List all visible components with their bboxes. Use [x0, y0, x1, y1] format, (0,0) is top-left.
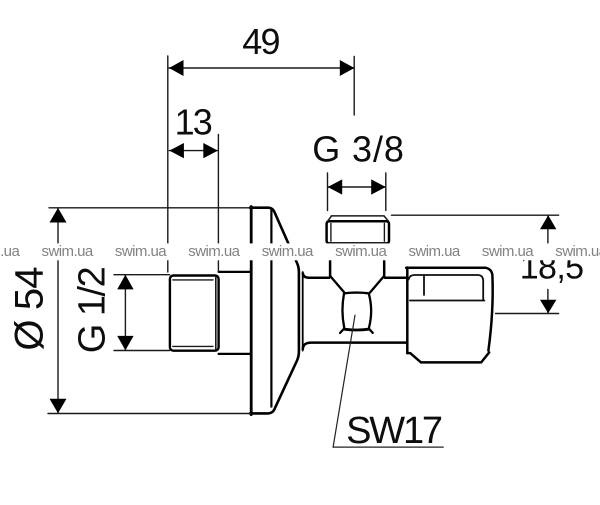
svg-text:G 3/8: G 3/8: [312, 128, 405, 169]
dimension 18,5 bottom extension line: [496, 313, 559, 315]
arrow G3/8 right: [371, 179, 386, 194]
shank bottom edge: [219, 353, 251, 355]
dimension G1/2 top extension line: [114, 274, 170, 276]
body top edge right segment: [385, 276, 407, 279]
svg-text:swim.ua: swim.ua: [42, 243, 94, 260]
svg-text:Ø 54: Ø 54: [8, 267, 52, 351]
flange face left edge: [250, 207, 253, 415]
stem barrel bottom: [344, 328, 368, 332]
SW17 underline: [333, 446, 443, 448]
dimension dia54 line: [57, 208, 59, 413]
nipple top face right connector: [384, 216, 388, 221]
nut right edge: [485, 268, 493, 351]
svg-text:swim.ua: swim.ua: [409, 243, 461, 260]
nut inner left facet vertical: [423, 276, 425, 295]
stem barrel left edge: [342, 294, 344, 328]
svg-text:49: 49: [242, 21, 279, 62]
barrel bottom left tick: [340, 329, 344, 333]
comma trim patch: [552, 284, 568, 294]
dimension 18,5 line lower segment: [547, 290, 549, 314]
dimension G1/2 bottom extension line: [114, 350, 170, 352]
svg-text:swim.ua: swim.ua: [335, 243, 387, 260]
thread inner bottom line: [173, 345, 213, 347]
barrel bottom right tick: [369, 329, 373, 333]
nut top edge: [406, 266, 485, 269]
arrow G3/8 left: [328, 179, 343, 194]
svg-text:13: 13: [175, 101, 212, 142]
flange outline cone: [250, 208, 299, 414]
dimension G1/2 line: [124, 275, 126, 350]
nipple top face line: [331, 215, 384, 217]
flange inner face line: [270, 209, 272, 407]
svg-text:SW17: SW17: [346, 410, 442, 452]
arrow dia54 top: [50, 208, 67, 223]
svg-text:swim.ua: swim.ua: [262, 243, 314, 260]
port left splay: [330, 276, 344, 292]
nipple top face left connector: [328, 216, 332, 221]
dimension 13 right extension line: [217, 135, 219, 273]
svg-text:swim.ua: swim.ua: [188, 243, 240, 260]
arrow 49 left: [169, 60, 184, 76]
dimension 13 line: [169, 150, 217, 152]
nut inner top facet: [409, 275, 484, 301]
svg-text:swim.ua: swim.ua: [0, 243, 20, 260]
watermark white band: [0, 243, 600, 260]
svg-text:swim.ua: swim.ua: [482, 243, 534, 260]
dimension 49 left extension line: [167, 56, 169, 272]
nipple inner right vertical: [383, 224, 385, 242]
arrow 18,5 top: [540, 215, 556, 229]
SW17 leader line: [333, 315, 355, 447]
arrow 13 left: [169, 143, 184, 158]
arrow G1/2 bottom: [117, 336, 133, 350]
dimension 49 line: [169, 67, 354, 69]
stem barrel SW17 top: [344, 291, 368, 294]
arrow G1/2 top: [117, 275, 133, 290]
arrow 13 right: [203, 143, 218, 158]
dimension dia54 bottom extension line: [48, 413, 251, 415]
nut left edge: [406, 268, 409, 354]
nut inner facet horizontal: [410, 300, 485, 302]
port right splay: [370, 276, 384, 292]
thread inner relief vertical: [215, 278, 217, 349]
flange neck inner line: [302, 272, 304, 351]
dimension G3/8 left extension line: [327, 173, 329, 211]
svg-text:swim.ua: swim.ua: [115, 243, 167, 260]
dimension 49 right extension line: [353, 57, 355, 116]
arrow 18,5 bottom: [540, 300, 556, 314]
nut bottom edge with chamfers: [407, 352, 489, 362]
nipple inner left vertical: [330, 224, 332, 242]
top port left stub: [329, 259, 332, 276]
top port right stub: [383, 259, 386, 276]
watermark row swim.ua: [0, 243, 600, 260]
shank top edge: [219, 271, 251, 273]
stem barrel right edge: [369, 294, 371, 328]
body bottom edge: [303, 343, 407, 349]
thread G1/2 male pipe outline: [170, 276, 219, 351]
svg-text:G 1/2: G 1/2: [71, 267, 113, 353]
dimension G3/8 line: [328, 186, 386, 188]
dimension G3/8 right extension line: [385, 173, 387, 211]
body top edge left segment: [303, 274, 329, 278]
dimension 18,5 top extension line: [392, 214, 559, 216]
arrow 49 right: [340, 60, 355, 76]
dimension dia54 top extension line: [49, 207, 251, 209]
G3/8 nipple outline: [327, 221, 389, 243]
dimension 18,5 line upper segment: [547, 215, 549, 243]
svg-text:swim.ua: swim.ua: [555, 243, 600, 260]
arrow dia54 bottom: [50, 399, 67, 413]
thread inner top line: [173, 279, 213, 281]
